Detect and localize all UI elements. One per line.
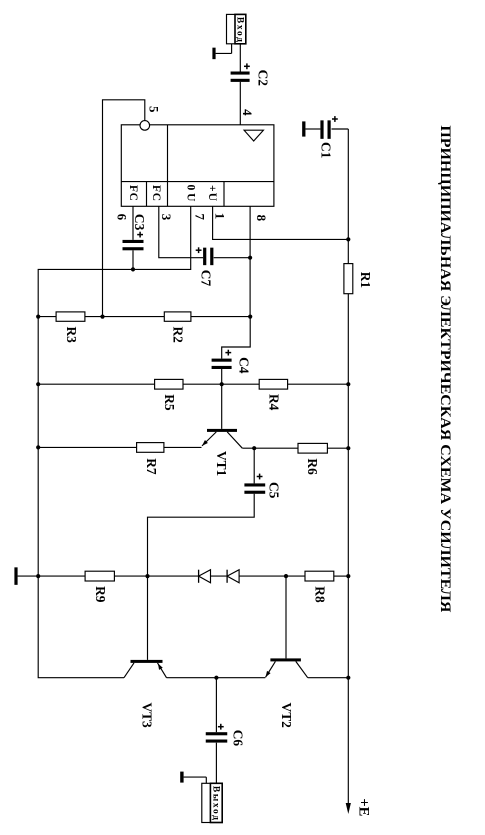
resistor R3 [56,312,85,321]
resistor R6 [298,443,327,453]
wire [159,206,203,257]
node left-rail R3 junction [36,315,40,319]
svg-text:0U: 0U [185,185,197,203]
svg-text:3: 3 [159,214,174,221]
wire [132,250,134,269]
op-amp triangle mark [244,130,263,141]
svg-text:6: 6 [114,214,129,221]
resistor R8 [305,571,334,581]
node C3-0line junction [131,267,135,271]
capacitor C5 [244,483,265,486]
resistor R1 [344,264,353,294]
wire [249,206,251,316]
wire [183,383,259,385]
svg-text:R4: R4 [267,394,282,411]
node output junction [214,676,218,680]
svg-text:C2: C2 [255,70,270,87]
svg-text:VT1: VT1 [214,451,229,476]
wire [148,494,255,576]
wire [347,294,349,385]
wire [38,446,136,448]
svg-text:R3: R3 [64,327,79,344]
wire (+E rail) [347,678,349,805]
capacitor C6 [206,732,228,735]
svg-text:C7: C7 [199,270,214,287]
transistor VT1 collector [227,432,242,448]
wire [239,44,241,72]
svg-text:R2: R2 [171,327,186,344]
node pin8-C7 junction [248,256,252,260]
capacitor C3 [123,240,144,243]
node R6-rail junction [346,446,350,450]
connector X2 Vyhod (output) [202,783,222,822]
wire [239,82,241,125]
wire [114,575,198,577]
transistor VT3 base bar [131,660,163,663]
svg-text:R8: R8 [313,586,328,603]
resistor R9 [85,571,114,581]
transistor VT3 emitter [158,663,167,678]
svg-text:Выход: Выход [210,786,220,820]
resistor R2 [164,312,191,321]
transistor VT2 collector [296,661,308,677]
capacitor C7 [203,248,206,266]
wire [38,383,154,385]
diode VD1 [198,570,200,583]
svg-text:C5: C5 [266,482,281,499]
node left-rail R7 junction [36,445,40,449]
wire [38,206,191,316]
wire [334,575,349,577]
svg-text:R9: R9 [93,586,108,603]
wire [214,257,250,259]
wire (output line) [167,677,266,679]
capacitor C4 [212,359,232,362]
op-amp U1 body [121,125,274,207]
wire (right rail) [347,448,349,576]
connector X1 Vhod (input) [227,14,246,43]
transistor VT1 base bar [207,429,237,432]
svg-text:C4: C4 [237,357,252,374]
node VT1-C5 junction [252,446,256,450]
svg-text:7: 7 [192,214,207,221]
node R4-rail junction [346,382,350,386]
svg-text:8: 8 [254,215,269,222]
op-amp U1 cell divider [146,182,148,207]
node VT3-base junction [145,574,149,578]
wire (left common rail) [38,317,124,678]
wire [132,206,134,240]
wire [285,576,287,658]
wire [239,575,305,577]
wire [215,743,217,784]
wire (right rail) [347,384,349,448]
wire [221,369,223,384]
diode VD2 [226,570,228,583]
capacitor C2 [231,72,250,75]
node VT2-base junction [284,574,288,578]
wire [231,44,233,54]
wire [164,446,202,448]
node C4-R5R4 junction [220,382,224,386]
svg-text:R7: R7 [144,458,159,475]
ground terminal (input common) [212,48,215,60]
svg-text:+U: +U [206,185,218,202]
svg-text:C1: C1 [319,142,334,158]
wire (right rail) [347,576,349,678]
svg-text:R6: R6 [305,458,320,475]
wire [38,316,56,318]
transistor VT2 emitter [266,661,276,677]
wire [103,100,145,317]
wire [332,128,349,130]
wire [184,776,207,778]
transistor VT1 emitter [202,432,216,446]
wire [221,384,223,429]
svg-text:1: 1 [212,213,227,220]
wire [288,383,349,385]
pin 5 bubble [140,121,150,131]
op-amp U1 cell divider [223,182,225,207]
node R8-rail junction [346,574,350,578]
wire [222,317,251,359]
resistor R7 [137,443,164,453]
wire [253,448,255,483]
svg-text:4: 4 [240,109,255,116]
terminal bar (C1 common) [302,121,305,136]
node +U rail junction [346,237,350,241]
wire [18,575,39,577]
svg-text:VT2: VT2 [279,703,294,729]
svg-text:5: 5 [146,106,161,113]
wire [191,316,250,318]
svg-text:R5: R5 [162,394,177,411]
wire [147,576,149,660]
svg-text:R1: R1 [358,272,373,288]
svg-text:C6: C6 [231,730,246,747]
wire [308,677,349,679]
wire [327,447,348,449]
svg-text:FC: FC [127,185,139,201]
svg-text:C3: C3 [132,214,147,231]
ground terminal (output common) [180,772,183,783]
resistor R4 [259,379,287,389]
svg-text:FC: FC [150,185,162,201]
capacitor C1 [320,120,323,139]
transistor VT2 base bar [270,658,301,661]
op-amp U1 internal divider [167,125,169,207]
wire [213,206,349,239]
node VT2-rail junction [346,676,350,680]
node left-rail R5 junction [36,382,40,386]
transistor VT3 collector [124,663,134,678]
wire [211,575,228,577]
+E arrow [346,803,351,814]
wire [305,128,320,130]
op-amp U1 pin-row line [121,181,274,183]
wire [242,447,298,449]
svg-text:VT3: VT3 [140,702,155,728]
wire [38,575,85,577]
resistor R5 [155,379,183,389]
svg-text:+E: +E [355,798,371,816]
node left-rail ground junction [36,574,40,578]
svg-text:ПРИНЦИПИАЛЬНАЯ ЭЛЕКТРИЧЕСКАЯ С: ПРИНЦИПИАЛЬНАЯ ЭЛЕКТРИЧЕСКАЯ СХЕМА УСИЛИ… [437,125,454,612]
node R2-pin8 junction [248,315,252,319]
wire [215,678,217,733]
node R3-R2 pin5 junction [100,315,104,319]
wire [85,316,164,318]
ground terminal (left) [14,567,17,585]
